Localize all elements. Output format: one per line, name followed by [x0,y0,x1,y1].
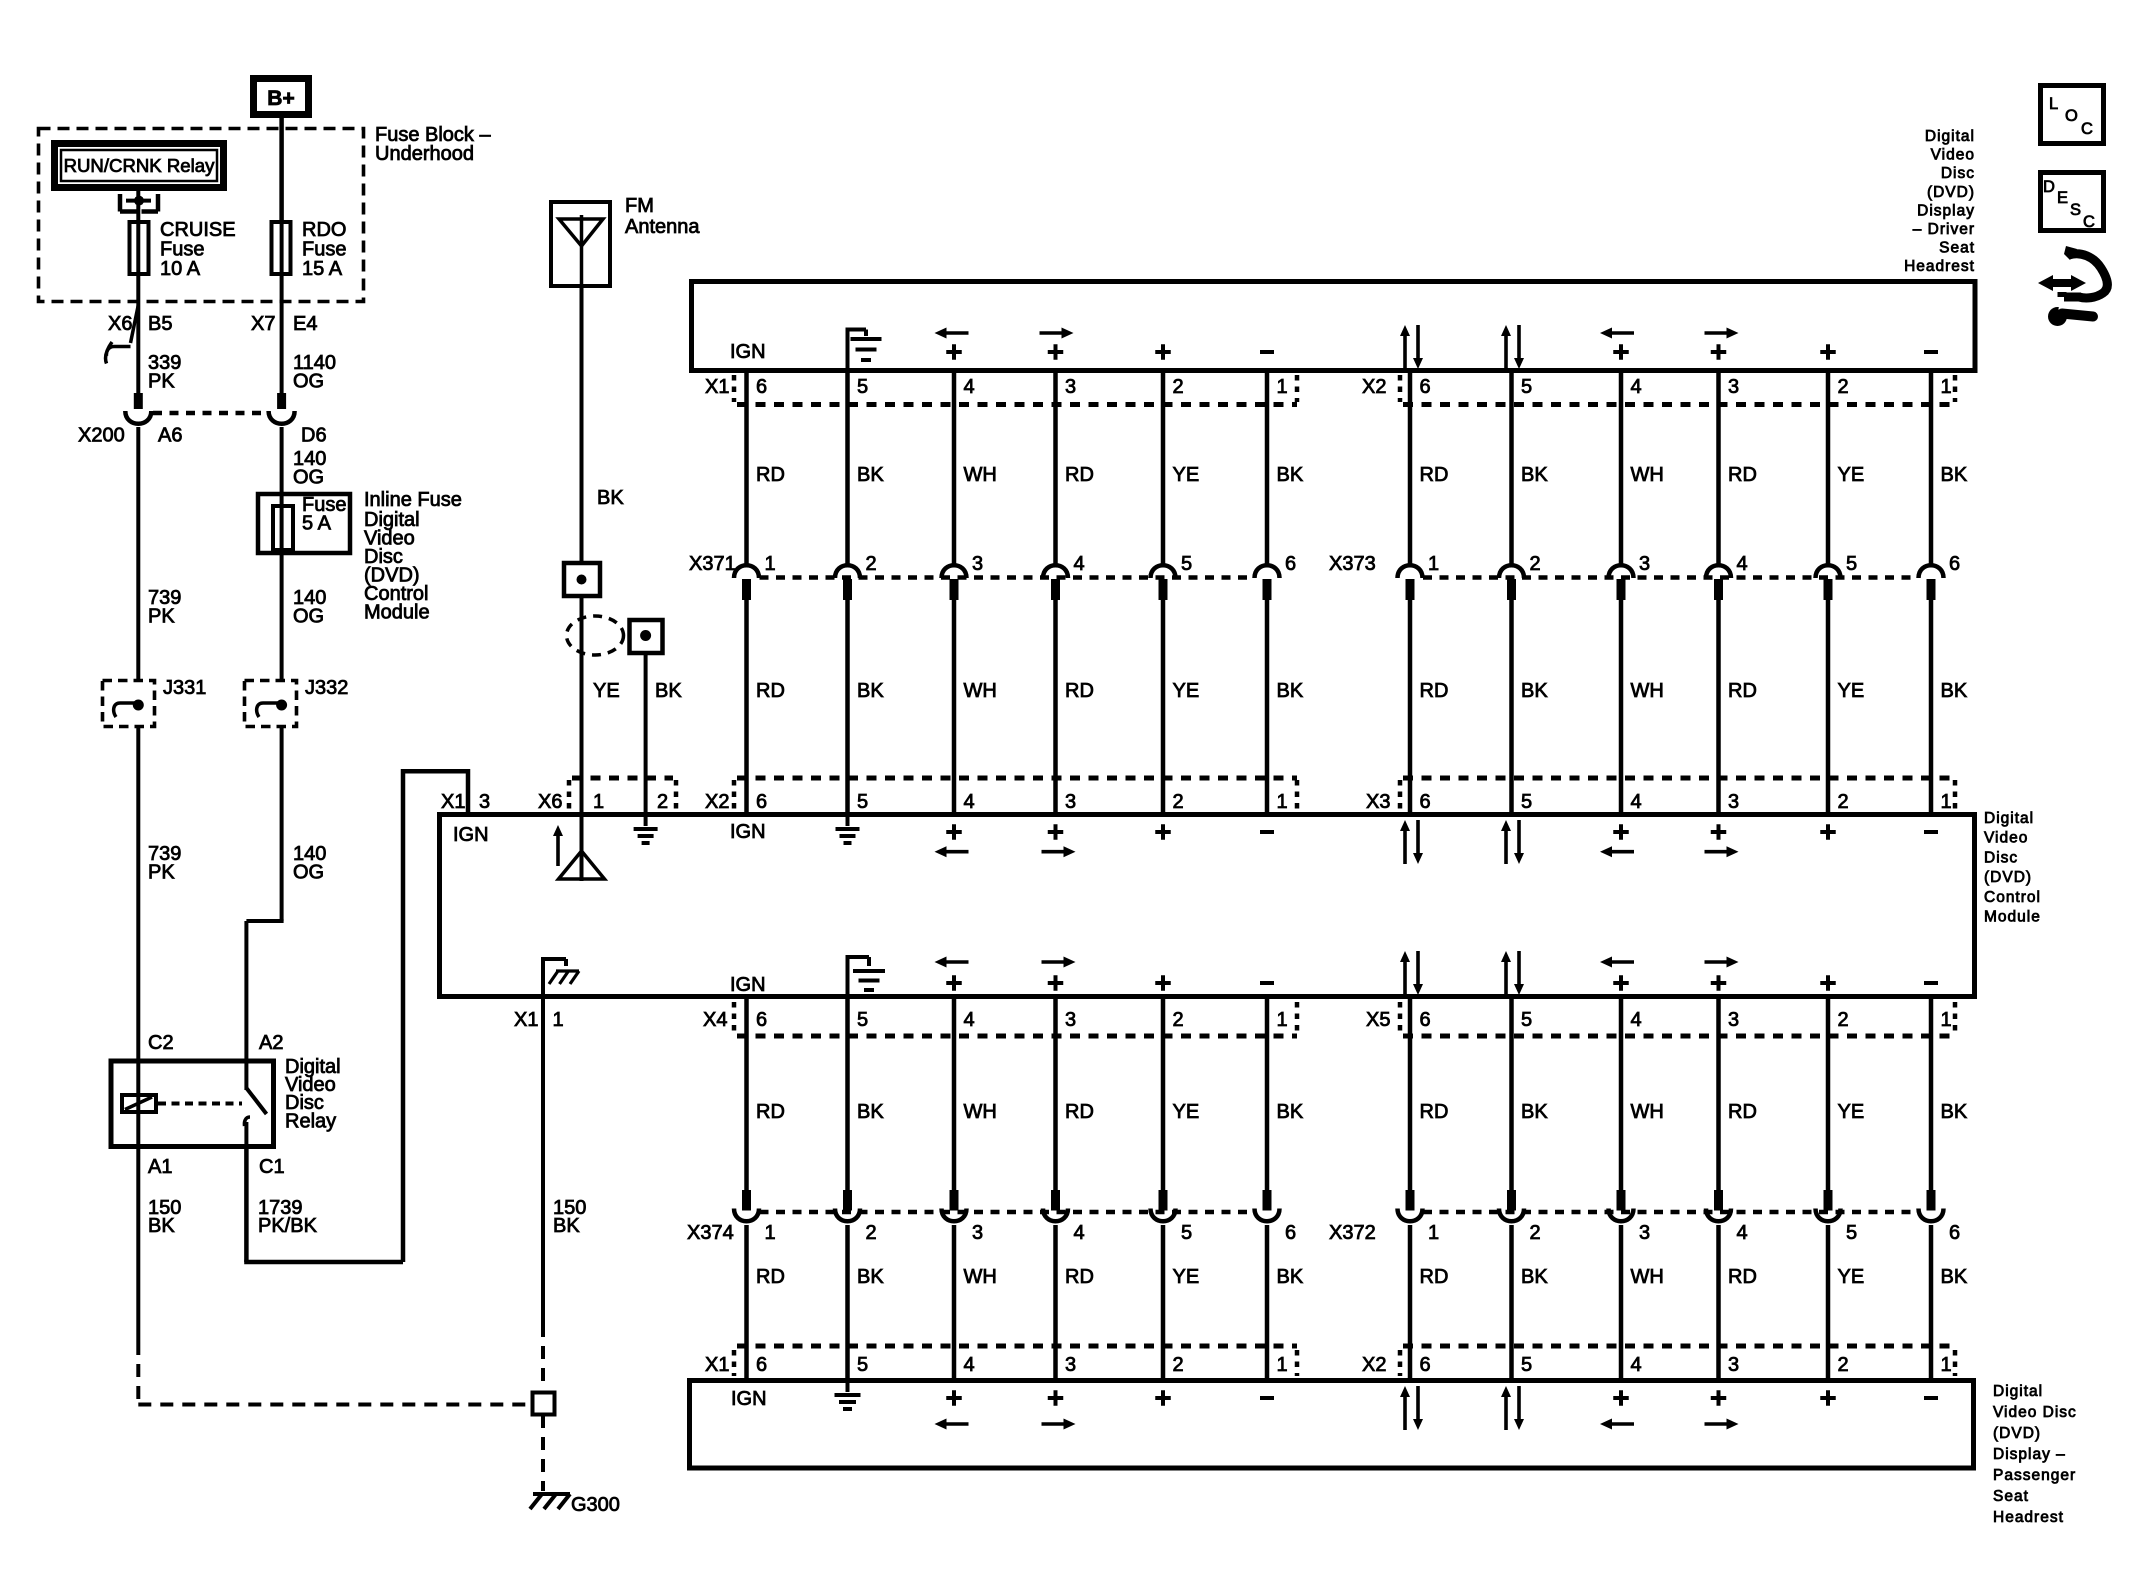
module plus / left arrow (X2-4) [935,824,969,857]
module minus (X2-1) [1260,830,1274,834]
top box up/down arrows (pin X2-6) [1400,325,1423,369]
svg-text:RD: RD [1728,1101,1757,1123]
svg-text:RD: RD [1065,680,1094,702]
svg-text:A2: A2 [259,1032,283,1054]
svg-text:RD: RD [756,1101,785,1123]
svg-text:YE: YE [1173,680,1200,702]
svg-text:5: 5 [1521,376,1532,398]
label 150 BK (right) [553,1197,586,1237]
svg-text:BK: BK [1521,680,1548,702]
bottom box plus / left arrow (X1-4) [935,1390,969,1429]
module plus (X5-2) [1820,975,1836,991]
svg-text:X1: X1 [514,1009,538,1031]
module plus (X2-2) [1155,824,1171,840]
wire color labels row 4 [756,1266,1968,1288]
svg-text:Headrest: Headrest [1904,258,1975,275]
wire color labels row 1 [756,464,1968,486]
svg-text:BK: BK [1277,1101,1304,1123]
bottom box plus / right arrow (X2-3) [1705,1390,1739,1429]
svg-text:BK: BK [857,464,884,486]
svg-text:2: 2 [1838,376,1849,398]
label X371 and pin numbers 1..6 [689,553,1296,575]
wire ground splice to G300 (dashed) [541,1415,545,1491]
svg-text:OG: OG [293,467,324,489]
module plus / left arrow (X3-4) [1600,824,1634,857]
svg-text:Relay: Relay [285,1111,336,1133]
svg-text:1: 1 [1941,376,1952,398]
svg-text:IGN: IGN [730,821,766,843]
svg-text:2: 2 [1173,791,1184,813]
svg-text:Display –: Display – [1993,1446,2066,1463]
relay coil [122,1095,156,1112]
module chassis ground (X1-1) [541,957,579,994]
svg-text:6: 6 [1420,376,1431,398]
svg-text:4: 4 [1631,376,1642,398]
module plus (X3-2) [1820,824,1836,840]
wire B+ to RDO fuse, 1140 OG circuit [279,118,284,221]
fuse block underhood (dashed box) [39,129,364,302]
wire 150 BK relay A1 to ground splice (solid then dashed) [138,1149,527,1405]
svg-text:PK: PK [148,862,175,884]
svg-text:B5: B5 [148,313,172,335]
svg-text:YE: YE [593,680,620,702]
svg-text:Video: Video [1931,147,1975,164]
svg-text:IGN: IGN [731,1388,767,1410]
svg-text:6: 6 [1420,791,1431,813]
label X5 and pin numbers 6..1 [1366,1009,1952,1031]
label Fuse Block - Underhood [375,124,491,165]
svg-text:2: 2 [866,553,877,575]
svg-text:S: S [2070,201,2081,219]
module plus (X4-2) [1155,975,1171,991]
fuse holder bracket with junction dot [120,194,158,212]
label FM Antenna [625,195,700,238]
svg-text:RD: RD [1065,1101,1094,1123]
svg-text:X2: X2 [1362,376,1386,398]
svg-text:5: 5 [1846,1222,1857,1244]
connector X1 (bottom box) bracket [734,1346,1297,1376]
svg-text:2: 2 [1838,1354,1849,1376]
svg-text:PK/BK: PK/BK [258,1215,318,1237]
module connector X2 bracket (top) [734,778,1297,812]
harness wires control module to X374/X372 [747,997,1932,1194]
svg-text:2: 2 [1838,791,1849,813]
svg-text:(DVD): (DVD) [1993,1425,2041,1442]
module up/down arrows (X5-6) [1400,951,1423,995]
svg-text:1: 1 [765,1222,776,1244]
svg-text:2: 2 [1173,376,1184,398]
svg-text:RD: RD [1420,680,1449,702]
label J331 [163,677,206,699]
label 739 PK (mid) [148,587,181,628]
svg-text:RD: RD [1420,1101,1449,1123]
top box minus (pin X1-1) [1260,350,1274,354]
svg-text:YE: YE [1173,1101,1200,1123]
module IGN (X4-6) [730,974,766,996]
svg-text:2: 2 [1530,553,1541,575]
label C2 A2 [148,1032,283,1054]
svg-text:J332: J332 [305,677,348,699]
svg-text:6: 6 [756,1009,767,1031]
top box right arrow / plus (pin X2-3) [1705,328,1739,360]
svg-text:YE: YE [1838,1266,1865,1288]
svg-text:Disc: Disc [1941,165,1975,182]
svg-text:WH: WH [964,1266,997,1288]
label X374 and pin numbers 1..6 [687,1222,1296,1244]
svg-text:4: 4 [1074,1222,1085,1244]
bottom box up/down arrows (X2-5) [1501,1386,1524,1430]
svg-text:3: 3 [1728,791,1739,813]
svg-text:RD: RD [756,1266,785,1288]
svg-text:4: 4 [1631,1354,1642,1376]
svg-text:Display: Display [1917,202,1975,219]
splice J332 [245,681,297,727]
bottom box IGN (X1-6) [731,1388,767,1410]
svg-text:4: 4 [1737,1222,1748,1244]
top box right arrow / plus (pin X1-3) [1040,328,1074,360]
svg-text:YE: YE [1173,1266,1200,1288]
label BK (antenna lead) [597,487,624,509]
svg-text:FM: FM [625,195,654,217]
top box minus (pin X2-1) [1924,350,1938,354]
wire BK shield to module X6-2 [644,653,648,814]
bottom box plus (X1-2) [1155,1390,1171,1406]
wire 150 BK module X1-1 to G300 [541,997,545,1388]
svg-text:Inline Fuse: Inline Fuse [364,489,462,511]
svg-text:3: 3 [1065,1354,1076,1376]
DVD control module box [440,815,1975,997]
FM antenna [551,202,610,286]
svg-text:6: 6 [1285,1222,1296,1244]
svg-text:RD: RD [1065,1266,1094,1288]
svg-text:J331: J331 [163,677,206,699]
svg-text:Digital: Digital [1925,128,1975,145]
module ground (X2-5) [836,817,860,843]
svg-text:X3: X3 [1366,791,1390,813]
svg-text:1: 1 [1941,1354,1952,1376]
shield drain connector (square with dot) [630,620,663,653]
svg-text:OG: OG [293,606,324,628]
module connector X5 bracket (bottom) [1400,1002,1955,1036]
svg-text:6: 6 [756,791,767,813]
svg-text:1: 1 [1277,1354,1288,1376]
harness wires X374/X372 to passenger display [747,1225,1932,1380]
svg-text:4: 4 [1631,1009,1642,1031]
module connector X4 bracket (bottom) [734,1002,1297,1036]
svg-text:5: 5 [1521,791,1532,813]
label X3 and pin numbers 6..1 (module top) [1366,791,1952,813]
svg-text:15 A: 15 A [302,258,343,280]
svg-text:1: 1 [593,791,604,813]
top box pin function IGN [730,341,766,363]
label Digital Video Disc Relay [285,1056,341,1133]
svg-text:Underhood: Underhood [375,143,474,165]
svg-text:BK: BK [1941,680,1968,702]
svg-text:IGN: IGN [730,974,766,996]
svg-text:Video Disc: Video Disc [1993,1404,2077,1421]
svg-text:6: 6 [756,376,767,398]
svg-text:OG: OG [293,862,324,884]
svg-text:Seat: Seat [1939,240,1975,257]
svg-text:C2: C2 [148,1032,174,1054]
wire 1739 PK/BK relay C1 to module X1-3 [244,769,468,1262]
label Digital Video Disc (DVD) Display - Passenger Seat Headrest [1993,1383,2077,1526]
svg-text:5: 5 [1521,1354,1532,1376]
svg-text:Antenna: Antenna [625,216,700,238]
icon DESC [2041,173,2104,232]
wire RUN/CRNK relay to CRUISE fuse [136,191,140,221]
connector X1 (top box) bracket [734,375,1297,405]
svg-text:6: 6 [1285,553,1296,575]
svg-text:X1: X1 [441,791,465,813]
icon wrench with double arrow [2038,246,2107,326]
svg-text:BK: BK [1521,464,1548,486]
module plus / right arrow (X5-3) [1705,957,1739,991]
svg-text:BK: BK [1521,1266,1548,1288]
svg-text:X200: X200 [78,425,125,447]
svg-text:Module: Module [1984,909,2041,926]
label 140 OG (lower) [293,843,326,884]
connector X373 (arcs, pins 1-6) [1398,565,1944,600]
svg-text:PK: PK [148,606,175,628]
svg-text:4: 4 [1631,791,1642,813]
label X373 and pin numbers 1..6 [1329,553,1960,575]
svg-text:YE: YE [1838,464,1865,486]
svg-text:G300: G300 [571,1494,620,1516]
svg-text:WH: WH [1631,1101,1664,1123]
relay coil-contact dashed link [158,1102,242,1106]
svg-text:D6: D6 [301,425,327,447]
wire 140 OG X200-D6 to inline fuse [280,427,284,504]
label G300 [571,1494,620,1516]
label Digital Video Disc (DVD) Display - Driver Seat Headrest [1904,128,1975,275]
module up/down arrows (X5-5) [1501,951,1524,995]
module antenna symbol (X6-1) [553,817,605,881]
svg-text:X5: X5 [1366,1009,1390,1031]
svg-text:Seat: Seat [1993,1488,2029,1505]
inline fuse housing [258,494,350,553]
svg-text:10 A: 10 A [160,258,201,280]
svg-text:5: 5 [1181,553,1192,575]
wire color labels row 2 [756,680,1968,702]
svg-text:6: 6 [1420,1354,1431,1376]
svg-text:RUN/CRNK Relay: RUN/CRNK Relay [64,155,216,176]
module plus / left arrow (X5-4) [1600,957,1634,991]
connector X372 (arcs, pins 1-6) [1398,1190,1944,1221]
module minus (X3-1) [1924,830,1938,834]
label 339 PK [148,352,181,393]
connector X2 (bottom box) bracket [1400,1346,1955,1376]
svg-text:IGN: IGN [730,341,766,363]
svg-text:BK: BK [1941,1266,1968,1288]
svg-text:X6: X6 [538,791,562,813]
svg-text:4: 4 [964,1354,975,1376]
module minus (X4-1) [1260,981,1274,985]
svg-text:YE: YE [1838,680,1865,702]
svg-text:– Driver: – Driver [1913,221,1975,238]
svg-text:3: 3 [1065,376,1076,398]
module plus / right arrow (X4-3) [1042,957,1076,991]
module ground (X6-2) [634,817,658,843]
wire 140 OG inline fuse to J332 [280,553,284,679]
ground G300 [530,1494,570,1509]
top box ground symbol (pin X1-5) [846,328,882,369]
svg-text:E4: E4 [293,313,317,335]
svg-text:3: 3 [1065,791,1076,813]
svg-text:X371: X371 [689,553,736,575]
connector X6 pin B5 slash [131,305,139,343]
svg-text:BK: BK [1941,464,1968,486]
harness wires X371/X373 to control module [747,600,1932,814]
module connector X3 bracket (top) [1400,778,1955,812]
bottom box plus (X2-2) [1820,1390,1836,1406]
svg-text:WH: WH [1631,680,1664,702]
bottom box plus / left arrow (X2-4) [1600,1390,1634,1429]
label 140 OG (mid) [293,587,326,628]
svg-text:E: E [2057,189,2068,207]
top box up/down arrows (pin X2-5) [1501,325,1524,369]
relay coil pins C2->A1 wire through coil [136,1061,140,1149]
svg-text:3: 3 [972,1222,983,1244]
module IGN (X2-6) [730,821,766,843]
connector hook symbol at X6 B5 [106,342,131,364]
svg-text:1: 1 [1941,791,1952,813]
svg-text:Headrest: Headrest [1993,1509,2064,1526]
svg-text:2: 2 [866,1222,877,1244]
label 1140 OG [293,352,336,393]
svg-text:5: 5 [1181,1222,1192,1244]
bottom box minus (X2-1) [1924,1396,1938,1400]
svg-text:WH: WH [964,464,997,486]
svg-text:1: 1 [553,1009,564,1031]
svg-text:BK: BK [597,487,624,509]
module minus (X5-1) [1924,981,1938,985]
svg-text:RD: RD [1728,680,1757,702]
connector X2 (top box) bracket [1400,375,1955,405]
svg-text:1: 1 [1941,1009,1952,1031]
svg-text:2: 2 [657,791,668,813]
svg-text:B+: B+ [267,87,294,110]
svg-text:BK: BK [1941,1101,1968,1123]
svg-text:D: D [2043,178,2055,196]
top box left arrow / plus (pin X2-4) [1600,328,1634,360]
wire antenna coax BK [580,286,584,561]
fuse DVD inline 5 A [273,494,346,552]
svg-text:4: 4 [1074,553,1085,575]
svg-text:6: 6 [1949,553,1960,575]
svg-text:BK: BK [655,680,682,702]
svg-text:3: 3 [1065,1009,1076,1031]
svg-text:4: 4 [964,1009,975,1031]
svg-text:BK: BK [1277,464,1304,486]
label Inline Fuse / DVD Control Module [364,489,462,624]
svg-text:A6: A6 [158,425,182,447]
svg-text:X374: X374 [687,1222,734,1244]
svg-text:3: 3 [972,553,983,575]
svg-text:X372: X372 [1329,1222,1376,1244]
module up/down arrows (X3-5) [1501,820,1524,864]
svg-text:Module: Module [364,602,430,624]
svg-text:RD: RD [1065,464,1094,486]
svg-text:L: L [2049,95,2058,113]
svg-text:2: 2 [1173,1354,1184,1376]
relay switch blade and contact [244,1061,266,1149]
svg-text:3: 3 [1728,1354,1739,1376]
svg-text:Digital: Digital [1984,810,2034,827]
svg-text:(DVD): (DVD) [1927,184,1975,201]
svg-text:OG: OG [293,371,324,393]
svg-text:IGN: IGN [453,824,489,846]
svg-text:YE: YE [1838,1101,1865,1123]
svg-text:RD: RD [1728,1266,1757,1288]
svg-text:BK: BK [857,680,884,702]
svg-text:RD: RD [1420,1266,1449,1288]
wire 339 PK from CRUISE fuse through X6 B5 [136,276,140,393]
svg-text:X2: X2 [1362,1354,1386,1376]
wire 739 PK J331 to relay C2 [136,728,140,1061]
label X1 3 (module top) [441,791,490,813]
svg-text:5: 5 [1846,553,1857,575]
wire 739 PK X200-A6 down to J331 [136,427,140,679]
label 1739 PK/BK [258,1197,318,1237]
connector X374 (arcs, pins 1-6) [734,1190,1280,1221]
label 140 OG (above inline fuse) [293,448,326,489]
label X6 and pins 1 2 [538,791,668,813]
svg-text:O: O [2065,107,2078,125]
svg-text:Video: Video [1984,830,2028,847]
label X2 and pin numbers 6..1 [1362,376,1952,398]
svg-text:4: 4 [964,376,975,398]
svg-text:X6: X6 [108,313,132,335]
harness wires top box to X371/X373 [747,373,1932,566]
label X1 and pin numbers 6..1 (bottom box) [705,1354,1288,1376]
svg-text:3: 3 [1639,1222,1650,1244]
svg-text:A1: A1 [148,1156,172,1178]
svg-text:C: C [2081,120,2093,138]
svg-text:WH: WH [964,1101,997,1123]
svg-text:3: 3 [1639,553,1650,575]
wire 140 OG J332 down with jog to relay A2 [246,728,283,1061]
svg-text:1: 1 [1277,376,1288,398]
svg-text:4: 4 [964,791,975,813]
label Digital Video Disc (DVD) Control Module [1984,810,2041,926]
svg-text:WH: WH [1631,464,1664,486]
svg-text:YE: YE [1173,464,1200,486]
bottom box up/down arrows (X2-6) [1400,1386,1423,1430]
module connector X6 bracket [569,778,676,812]
svg-text:3: 3 [479,791,490,813]
svg-text:3: 3 [1728,376,1739,398]
RUN/CRNK Relay [55,144,224,188]
svg-text:6: 6 [1420,1009,1431,1031]
label A1 C1 [148,1156,285,1178]
svg-text:2: 2 [1173,1009,1184,1031]
connector X371 (arcs, pins 1-6) [734,565,1280,600]
top box plus (pin X1-2) [1155,344,1171,360]
fuse RDO 15 A [272,219,347,280]
svg-text:WH: WH [964,680,997,702]
svg-text:3: 3 [1728,1009,1739,1031]
svg-text:PK: PK [148,371,175,393]
svg-text:Disc: Disc [1984,849,2018,866]
svg-text:Digital: Digital [1993,1383,2043,1400]
svg-text:1: 1 [1277,791,1288,813]
svg-text:4: 4 [1737,553,1748,575]
svg-text:RD: RD [1420,464,1449,486]
svg-text:1: 1 [1428,1222,1439,1244]
top box left arrow / plus (pin X1-4) [935,328,969,360]
svg-text:BK: BK [553,1215,580,1237]
